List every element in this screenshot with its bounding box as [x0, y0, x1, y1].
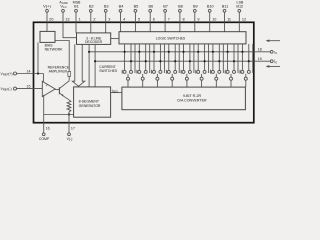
wire B9 stem to logic switches	[194, 22, 196, 31]
svg-text:15: 15	[27, 85, 31, 89]
wire emitter to resistor	[64, 96, 70, 100]
wire B10 stem to logic switches	[209, 22, 211, 31]
svg-text:B12: B12	[236, 4, 243, 8]
svg-text:3: 3	[108, 17, 110, 21]
svg-text:19: 19	[258, 57, 262, 61]
wire B6 stem to logic switches	[149, 22, 151, 31]
svg-text:AMPLIFIER: AMPLIFIER	[49, 69, 68, 73]
pin VREF(-) 15	[1, 85, 43, 92]
svg-text:B4: B4	[119, 4, 124, 8]
svg-text:6: 6	[153, 17, 155, 21]
svg-text:18: 18	[258, 48, 262, 52]
wire IO bus	[89, 51, 270, 53]
wire B12 stem to logic switches	[238, 22, 240, 31]
pin B5 5	[134, 4, 141, 22]
svg-text:SWITCHES: SWITCHES	[99, 69, 118, 73]
pin B11 11	[222, 4, 231, 22]
current switch cell 7	[211, 44, 224, 87]
pin AGND/VLC 13	[59, 0, 69, 22]
svg-text:B9: B9	[193, 4, 198, 8]
node VREF+ junction	[37, 72, 39, 74]
wire VREF+ to bias network	[37, 42, 39, 73]
current switch cell 4	[166, 44, 179, 87]
wire V- pin riser	[68, 115, 70, 133]
svg-text:B1: B1	[74, 4, 79, 8]
resistor R1	[67, 100, 71, 112]
svg-text:B11: B11	[222, 4, 228, 8]
8-segment generator box	[74, 87, 111, 117]
wire segment switch left riser 2	[94, 44, 96, 87]
arrow IO-bar current	[266, 65, 280, 68]
9-bit R-2R D/A converter box	[122, 87, 245, 110]
pin B12 12	[236, 4, 246, 22]
svg-text:V(-): V(-)	[67, 137, 73, 141]
svg-text:B7: B7	[163, 4, 168, 8]
wire B7 stem to logic switches	[164, 22, 166, 31]
svg-text:16: 16	[46, 126, 50, 130]
pin B9 9	[193, 4, 200, 22]
svg-text:17: 17	[71, 126, 75, 130]
wire ISEG	[111, 92, 122, 94]
wire B4 stem to logic switches	[120, 22, 122, 31]
op-amp U1	[42, 81, 55, 96]
svg-text:B6: B6	[148, 4, 153, 8]
svg-text:IO: IO	[274, 60, 277, 65]
wire B1 stem to decoder	[75, 22, 77, 33]
wire B5 stem to logic switches	[134, 22, 136, 31]
svg-text:7: 7	[168, 17, 170, 21]
pin V(+) 20	[43, 3, 53, 22]
svg-text:9-BIT R-2R: 9-BIT R-2R	[183, 94, 202, 98]
svg-text:10: 10	[212, 17, 216, 21]
transistor Q1	[59, 81, 69, 97]
svg-text:B10: B10	[207, 4, 214, 8]
pin B1 1	[74, 4, 81, 22]
wire B2 stem to decoder	[90, 22, 92, 33]
pin IO-bar 19	[258, 57, 277, 64]
svg-text:GENERATOR: GENERATOR	[79, 104, 101, 108]
wire decoder to logic switches	[111, 38, 119, 40]
wire VREF+ to op-amp input	[42, 74, 44, 82]
wire bias network to collector node	[55, 41, 69, 72]
svg-text:DECODER: DECODER	[85, 40, 103, 44]
pin B10 10	[207, 4, 217, 22]
svg-text:B8: B8	[178, 4, 183, 8]
node riser1/IO bus	[88, 51, 90, 53]
svg-text:VREF(+): VREF(+)	[1, 72, 13, 77]
node riser2/IObar bus	[94, 60, 96, 62]
pin VREF(+) 14	[1, 70, 44, 77]
pin IO 18	[258, 48, 277, 55]
bias network box	[40, 31, 55, 42]
pin B6 6	[148, 4, 154, 22]
svg-text:14: 14	[27, 70, 31, 74]
current switch cell 2	[137, 44, 150, 87]
wire COMP riser	[43, 95, 45, 133]
wire B8 stem to logic switches	[179, 22, 181, 31]
wire V- rail	[44, 114, 74, 116]
svg-text:V(+): V(+)	[43, 3, 51, 8]
svg-text:20: 20	[49, 17, 53, 21]
svg-text:LOGIC SWITCHES: LOGIC SWITCHES	[156, 37, 186, 41]
svg-text:1: 1	[79, 17, 81, 21]
svg-text:NETWORK: NETWORK	[45, 47, 64, 51]
svg-text:B2: B2	[89, 4, 94, 8]
svg-text:D/A CONVERTER: D/A CONVERTER	[177, 99, 207, 103]
svg-text:B3: B3	[104, 4, 109, 8]
svg-text:13: 13	[65, 17, 69, 21]
svg-text:4: 4	[123, 17, 125, 21]
pin B8 8	[178, 4, 185, 22]
current switch cell 1	[122, 44, 135, 87]
logic switches box	[119, 32, 246, 44]
IC package outline	[34, 22, 254, 122]
current switch cell 8	[225, 44, 238, 87]
svg-text:5: 5	[138, 17, 140, 21]
current switch cell 6	[196, 44, 209, 87]
svg-text:B5: B5	[134, 4, 139, 8]
svg-text:9: 9	[197, 17, 199, 21]
wire bias element to collector	[68, 76, 70, 80]
svg-text:VREF(-): VREF(-)	[1, 87, 12, 92]
wire IO-bar bus	[95, 60, 270, 62]
pin B7 7	[163, 4, 170, 22]
svg-text:+: +	[46, 84, 48, 88]
current switch cell 9	[240, 44, 253, 87]
svg-text:11: 11	[227, 17, 231, 21]
svg-text:8: 8	[183, 17, 185, 21]
decoder bus arrow into segment generator	[72, 44, 84, 86]
pin B2 2	[89, 4, 96, 22]
arrow IO current	[266, 39, 280, 42]
pin V(-) 17	[67, 126, 75, 141]
svg-text:ISEG: ISEG	[112, 89, 118, 94]
wire segment switch left riser 1	[88, 44, 90, 87]
pin B3 3	[104, 4, 111, 22]
wire B3 stem to decoder	[105, 22, 107, 33]
wire resistor to V- rail	[68, 112, 70, 115]
bias element box	[68, 71, 71, 76]
pin COMP 16	[39, 126, 50, 141]
svg-text:2: 2	[93, 17, 95, 21]
wire VLC to decoder	[63, 22, 77, 37]
svg-text:IO: IO	[274, 50, 277, 55]
current switch cell 5	[181, 44, 194, 87]
svg-text:COMP: COMP	[39, 137, 50, 141]
current switch cell 3	[152, 44, 165, 87]
node resistor/V- junction	[68, 113, 70, 115]
3-8 line decoder box	[77, 33, 111, 45]
wire B11 stem to logic switches	[224, 22, 226, 31]
wire op-amp output to base	[55, 89, 59, 91]
wire V+ to bias network	[46, 22, 48, 31]
svg-text:VLC: VLC	[60, 4, 66, 10]
svg-text:12: 12	[242, 17, 246, 21]
pin B4 4	[119, 4, 126, 22]
